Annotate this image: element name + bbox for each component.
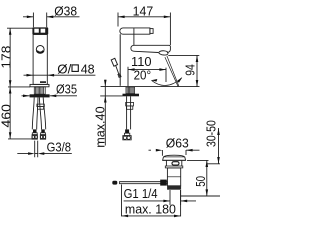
body front edge (119, 34, 121, 86)
tail pipe (167, 168, 180, 186)
dim 30-50 line (218, 128, 220, 164)
dim 178/460 vertical line (9, 28, 11, 139)
faucet front body (33, 35, 47, 85)
dim Ø35 line (22, 95, 78, 97)
Ø63 arrows (156, 149, 163, 152)
spout top and back (134, 45, 171, 52)
dim 50 top extension (187, 159, 209, 161)
flange lip (163, 159, 186, 161)
svg-text:94: 94 (183, 64, 198, 76)
Ø38 arrows (27, 16, 34, 19)
pull knob tilted (111, 58, 117, 66)
dim G1 1/4 extension lines (170, 190, 181, 205)
svg-text:48: 48 (81, 62, 95, 77)
svg-text:Ø63: Ø63 (166, 136, 189, 151)
mounting washer front (Ø35) (30, 94, 50, 97)
svg-text:Ø/: Ø/ (57, 62, 71, 77)
threaded shank side (126, 87, 135, 94)
147 arrows (118, 16, 125, 19)
lever joint line (133, 28, 135, 34)
square symbol for Ø/□48 (72, 65, 78, 72)
svg-text:G1 1/4: G1 1/4 (124, 186, 158, 201)
dim max40 line (104, 80, 106, 146)
dim max40 extension (100, 95, 122, 97)
right supply hose (39, 97, 45, 129)
lever knob circle front (36, 46, 44, 54)
svg-text:110: 110 (131, 54, 152, 69)
rod clevis (160, 180, 167, 186)
stream lines 20deg (165, 56, 179, 86)
svg-text:147: 147 (133, 3, 154, 18)
pull knob stem (116, 66, 120, 77)
drain plug dome (163, 155, 186, 160)
dim G3/8 line (17, 153, 72, 155)
left hose connector (32, 129, 37, 139)
pop-up rod (120, 182, 168, 184)
svg-text:460: 460 (0, 104, 13, 128)
dim 50 bottom extension (181, 195, 220, 197)
dim 30-50 bottom extension (207, 163, 220, 165)
svg-text:Ø38: Ø38 (54, 4, 77, 19)
spout underside (135, 51, 158, 52)
Ø/□48 arrow (48, 74, 55, 77)
lever post (133, 34, 135, 45)
base flange front (30, 84, 49, 86)
dim 147 line (118, 16, 170, 18)
Ø35 arrows (23, 95, 30, 98)
side hose connector (123, 129, 131, 140)
50 arrows (206, 160, 209, 167)
max180 arrows (122, 215, 129, 218)
dim max180 line (122, 215, 181, 217)
aerator dash front (40, 81, 46, 83)
rod knob (112, 181, 117, 185)
drain ridge (165, 166, 183, 168)
pipe joint line (167, 176, 180, 178)
dim Ø38 extension lines (33, 13, 46, 28)
dim max180 left extension (121, 185, 123, 217)
dim 110 extension right (165, 68, 167, 82)
460 arrows (9, 87, 12, 94)
dim 94 line (196, 55, 198, 86)
right hose connector (40, 129, 45, 139)
dim Ø63 extension lines (162, 150, 186, 156)
dim G3/8 extension lines (35, 141, 38, 158)
plug rim chord (163, 156, 185, 158)
30-50 arrows (217, 128, 220, 135)
dim 110 line (128, 69, 166, 71)
svg-text:50: 50 (193, 176, 208, 187)
dim Ø/□48 leader (24, 74, 96, 76)
178 arrows (9, 28, 12, 35)
dim Ø63 line (149, 149, 200, 151)
dim 94 top extension (168, 54, 199, 56)
threaded shank front (34, 87, 45, 94)
svg-text:30-50: 30-50 (203, 120, 218, 147)
dim G1 1/4 line (124, 200, 196, 202)
dim 460 bottom extension (8, 138, 32, 140)
washer side (123, 94, 140, 97)
side lever bar (120, 28, 150, 34)
angle arc 20deg (152, 78, 182, 86)
deck line right view (101, 86, 200, 88)
svg-text:178: 178 (0, 46, 13, 69)
ARROWHEADS (9, 16, 220, 218)
angle arc arrows (151, 79, 157, 82)
svg-text:20°: 20° (134, 68, 152, 83)
G1 1/4 arrows (163, 200, 170, 203)
lever end cap (150, 29, 153, 34)
faucet front lever cap (32, 27, 48, 34)
outlet nozzle (159, 51, 168, 55)
dim 110 extension left (127, 67, 129, 86)
pipe thread nut (167, 186, 181, 190)
dim 50 line (206, 160, 208, 196)
side hose fitting (126, 102, 134, 106)
knob bottom crescent (37, 51, 44, 53)
94 arrows (196, 55, 199, 62)
dim 147 extension lines (118, 13, 170, 46)
deck extension left view (8, 86, 30, 88)
110 arrows (128, 68, 135, 71)
dim 178 extension top (7, 27, 33, 29)
side hose (127, 96, 131, 129)
dim max180 right extension (180, 190, 182, 216)
G3/8 arrows (28, 152, 35, 155)
max40 arrows (104, 80, 107, 87)
svg-text:max. 180: max. 180 (125, 202, 176, 217)
svg-text:Ø35: Ø35 (56, 81, 77, 96)
dim Ø38 line (23, 16, 80, 18)
drain neck (166, 160, 181, 166)
knob foot (118, 74, 121, 78)
left supply hose (32, 97, 38, 129)
hose fitting (37, 104, 44, 107)
svg-text:max.40: max.40 (92, 106, 107, 147)
svg-text:G3/8: G3/8 (47, 139, 71, 154)
waste slot (172, 162, 179, 165)
spout nose (131, 45, 135, 51)
